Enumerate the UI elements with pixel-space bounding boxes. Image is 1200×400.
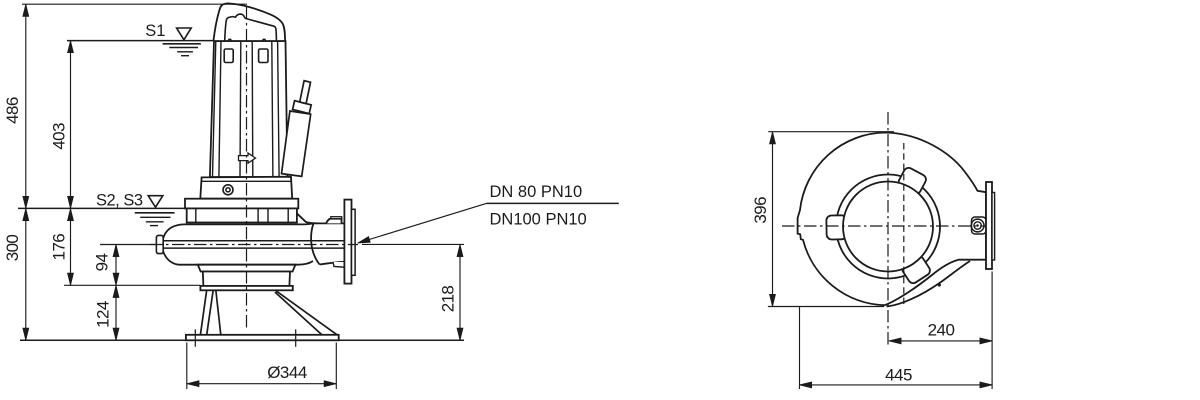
ext line 396 bottom [768, 306, 884, 308]
dim 396 [772, 132, 774, 307]
ext lines dia344 [186, 343, 188, 390]
casing step 2 [203, 272, 290, 286]
latch clip left [224, 49, 233, 63]
suction nose [156, 235, 163, 253]
svg-text:Ø344: Ø344 [267, 363, 307, 382]
dim 445 [800, 384, 993, 386]
hidden line dashed [903, 143, 905, 306]
leader line DN [358, 203, 487, 243]
ext line suction level [64, 284, 200, 286]
svg-text:218: 218 [438, 286, 457, 313]
ext line 445/240 right [991, 272, 993, 390]
ext line 218 top [362, 243, 464, 245]
svg-text:300: 300 [3, 235, 22, 262]
suction clamp ring outer [836, 175, 940, 279]
dim 403 [70, 41, 72, 209]
shaft line lower [163, 247, 344, 249]
svg-text:486: 486 [3, 97, 22, 124]
svg-text:240: 240 [928, 321, 955, 340]
discharge pipe to flange [297, 214, 345, 265]
flange plate (top view) [986, 182, 992, 269]
ext line top (handle top) [22, 3, 247, 5]
svg-text:94: 94 [93, 254, 112, 272]
dim 486 [25, 4, 27, 208]
ext line 445 left [799, 306, 801, 389]
pipe top lug cap [331, 217, 342, 219]
pump vertical centerline [246, 7, 248, 331]
latch clip right [259, 49, 268, 63]
ext line S1 water level [67, 40, 214, 42]
S2,S3 water level symbol [135, 196, 175, 226]
dim 176 [70, 208, 72, 285]
svg-text:DN 80 PN10: DN 80 PN10 [490, 183, 583, 201]
rotation direction arrow icon [239, 153, 256, 163]
volute casing [162, 223, 320, 265]
dim 240 [889, 340, 992, 342]
flange hub line [992, 193, 995, 261]
discharge flange hub [352, 209, 356, 275]
svg-text:176: 176 [50, 234, 69, 261]
vertical centerline [887, 112, 889, 345]
strainer ring plate [200, 286, 292, 290]
DN divider line [486, 202, 619, 204]
ext line S2,S3 level [18, 207, 186, 209]
clamp tab top [897, 166, 928, 195]
handle base bumps [228, 39, 265, 41]
svg-text:124: 124 [94, 301, 113, 328]
discharge flange plate [344, 200, 351, 284]
motor cooling rib lines [213, 41, 280, 177]
svg-text:445: 445 [885, 366, 912, 385]
svg-text:403: 403 [49, 123, 68, 150]
eye bolt [223, 185, 233, 195]
motor body [210, 41, 288, 177]
suction inlet circle [843, 182, 933, 272]
dim dia344 [187, 383, 336, 385]
casing step 1 [198, 265, 296, 272]
cable gland (diagonal) [282, 81, 312, 177]
dim 94 [115, 245, 117, 286]
svg-text:S2, S3: S2, S3 [96, 191, 143, 209]
ext line 396 top [768, 131, 894, 133]
dim 218 [459, 244, 461, 340]
clamp tab bottom [901, 255, 932, 285]
shaft line upper [163, 240, 344, 242]
S1 water level symbol [163, 28, 201, 56]
base plate [186, 335, 339, 341]
drain hole dot [938, 283, 941, 286]
oil chamber tier [185, 199, 298, 209]
flange eyebolt [971, 219, 984, 232]
base plate hole ticks [194, 329, 196, 347]
ext line pump axis left [100, 244, 156, 246]
stand legs [200, 291, 337, 335]
flange eyebolt lug [972, 217, 987, 234]
svg-text:S1: S1 [145, 22, 165, 40]
svg-text:396: 396 [751, 197, 770, 224]
volute outer spiral edge [887, 261, 971, 306]
dim 300 [25, 208, 27, 340]
handle outer [213, 3, 285, 41]
volute outline [798, 133, 986, 306]
clamp tab left [826, 215, 846, 239]
svg-text:DN100 PN10: DN100 PN10 [490, 211, 587, 229]
pump horizontal centerline [150, 244, 358, 246]
pipe bottom lug [333, 262, 344, 267]
handle grip cutout [225, 14, 277, 41]
motor top edge [214, 40, 286, 42]
ground line [20, 339, 464, 341]
bearing bracket (motor foot) [200, 177, 292, 199]
dim 124 [115, 285, 117, 340]
seal chamber tier [187, 208, 297, 222]
pipe top lug [326, 219, 342, 224]
horizontal centerline [782, 225, 985, 227]
